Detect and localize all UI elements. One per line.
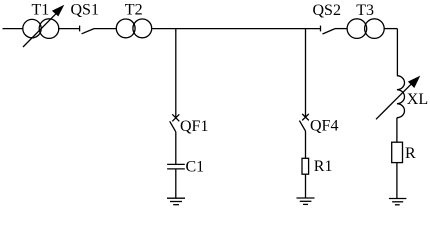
svg-text:QF4: QF4 <box>310 118 338 135</box>
wire T2 to QS2 (main bus) <box>152 28 321 30</box>
svg-text:T2: T2 <box>125 2 143 19</box>
svg-text:R1: R1 <box>314 158 333 175</box>
svg-text:R: R <box>405 145 416 162</box>
wire QS1 to T2 <box>94 28 116 30</box>
wire XL to R <box>396 118 398 143</box>
wire bus left segment <box>3 28 23 30</box>
wire QF1 to C1 <box>175 132 177 164</box>
wire QF4 to R1 <box>305 131 307 158</box>
disconnector QS2 <box>321 26 336 34</box>
resistor R <box>392 142 403 162</box>
svg-text:QS1: QS1 <box>71 1 99 18</box>
ground (branch 2) <box>297 198 315 204</box>
wire branch 3 drop <box>396 29 398 76</box>
wire branch 1 drop <box>175 29 177 117</box>
breaker QF1 <box>170 114 180 132</box>
svg-text:XL: XL <box>407 91 428 108</box>
disconnector QS1 <box>80 26 94 34</box>
ground (branch 1) <box>167 198 185 205</box>
wire C1 to ground <box>175 169 177 198</box>
breaker QF4 <box>299 114 308 131</box>
wire T1 to QS1 <box>58 28 80 30</box>
wire QS2 to T3 <box>335 28 348 30</box>
svg-text:QF1: QF1 <box>180 118 208 135</box>
wire T3 to corner <box>384 28 398 30</box>
transformer T3 <box>347 19 384 39</box>
svg-text:T1: T1 <box>32 2 50 19</box>
reactor XL <box>376 76 420 120</box>
wire branch 2 drop <box>305 29 307 117</box>
svg-text:C1: C1 <box>186 159 205 176</box>
resistor R1 <box>302 158 309 174</box>
ground (branch 3) <box>389 199 407 205</box>
capacitor C1 <box>167 164 185 169</box>
transformer T1 <box>23 5 65 47</box>
wire R to ground <box>396 163 398 199</box>
svg-text:T3: T3 <box>356 2 374 19</box>
wire R1 to ground <box>305 174 307 198</box>
svg-text:QS2: QS2 <box>313 2 341 19</box>
transformer T2 <box>116 19 151 38</box>
